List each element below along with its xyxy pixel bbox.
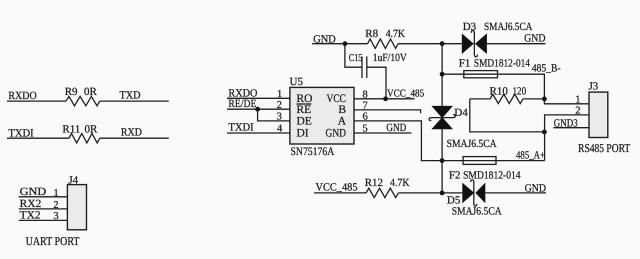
svg-text:5: 5 xyxy=(363,124,368,135)
svg-text:VCC_485: VCC_485 xyxy=(316,182,358,194)
svg-text:D5: D5 xyxy=(447,194,461,206)
resistor R10 xyxy=(470,86,545,104)
wire B vertical xyxy=(441,44,443,107)
svg-text:R10: R10 xyxy=(490,86,509,98)
svg-text:F1: F1 xyxy=(459,57,471,69)
svg-text:0R: 0R xyxy=(85,123,99,135)
fuse F1 SMD1812-014 xyxy=(459,57,531,77)
svg-text:RXD: RXD xyxy=(121,127,142,139)
wire RXDO-TXD net xyxy=(7,100,169,102)
svg-text:2: 2 xyxy=(277,100,282,111)
svg-text:TX2: TX2 xyxy=(20,209,41,221)
svg-text:D3: D3 xyxy=(463,21,477,33)
svg-text:UART PORT: UART PORT xyxy=(26,234,80,248)
svg-text:A: A xyxy=(338,116,347,128)
svg-text:0R: 0R xyxy=(84,86,98,98)
node R10 top xyxy=(542,97,547,102)
svg-text:1: 1 xyxy=(277,89,282,100)
svg-text:485_A+: 485_A+ xyxy=(516,149,545,161)
wire A vertical lower xyxy=(441,128,443,193)
wire J3 pin2 xyxy=(545,106,589,161)
wire R10 left return xyxy=(470,99,545,132)
svg-text:VCC_485: VCC_485 xyxy=(387,88,424,99)
resistor R12 xyxy=(365,177,410,197)
wire TXDI-RXD net xyxy=(7,137,169,139)
transistor D5: TVS diode D5 xyxy=(447,180,502,218)
wire D5 to GND xyxy=(485,192,546,194)
svg-text:4: 4 xyxy=(277,123,283,134)
svg-text:2: 2 xyxy=(53,200,58,211)
svg-text:TXDI: TXDI xyxy=(228,121,254,133)
wire U5 pin6 A xyxy=(354,111,442,160)
svg-text:GND: GND xyxy=(386,122,406,134)
svg-text:DE: DE xyxy=(297,116,312,128)
wire A row through F2 xyxy=(442,160,544,162)
svg-text:1: 1 xyxy=(53,188,58,199)
svg-text:SMAJ6.5CA: SMAJ6.5CA xyxy=(447,138,497,150)
svg-text:8: 8 xyxy=(363,89,368,100)
node RE/DE junction xyxy=(255,107,260,112)
node B-line top junction xyxy=(440,41,445,46)
svg-text:SMD1812-014: SMD1812-014 xyxy=(474,57,531,69)
wire U5 pin5 GND xyxy=(354,122,412,135)
svg-text:GND: GND xyxy=(326,128,347,140)
transistor D3: TVS diode D3 xyxy=(462,21,533,57)
node A-line junction xyxy=(440,158,445,163)
wire U5 pin2 RE/DE xyxy=(227,98,290,111)
svg-text:RE/DE: RE/DE xyxy=(228,98,256,110)
wire VCC_485 to R12 xyxy=(314,192,366,194)
wire R8 to D3 xyxy=(398,43,462,45)
svg-text:1: 1 xyxy=(575,94,580,105)
wire J4 pin1 GND xyxy=(19,186,68,199)
wire D3 to GND xyxy=(487,43,546,45)
svg-text:3: 3 xyxy=(53,211,58,222)
svg-text:R11: R11 xyxy=(62,123,80,135)
node R12 junction xyxy=(440,191,445,196)
node VCC_485 xyxy=(383,88,424,101)
svg-text:TXDI: TXDI xyxy=(8,128,34,140)
wire J3 pin1 xyxy=(544,94,589,105)
svg-text:GND3: GND3 xyxy=(554,117,578,129)
svg-text:R12: R12 xyxy=(365,177,383,189)
node R10 bottom xyxy=(542,130,547,135)
wire J4 pin2 RX2 xyxy=(19,198,68,211)
svg-text:R9: R9 xyxy=(65,86,78,98)
node F1 junction xyxy=(440,72,445,77)
svg-text:DI: DI xyxy=(297,128,309,140)
resistor R8 xyxy=(365,28,405,48)
svg-text:120: 120 xyxy=(513,86,527,98)
capacitor C15 xyxy=(345,44,407,99)
svg-text:TXD: TXD xyxy=(120,90,141,102)
svg-text:F2: F2 xyxy=(449,170,461,182)
svg-text:R8: R8 xyxy=(365,28,378,40)
pin RE overline xyxy=(297,104,312,116)
wire R12 to D5 xyxy=(398,192,462,194)
svg-text:6: 6 xyxy=(363,111,368,122)
svg-text:J4: J4 xyxy=(68,174,78,186)
svg-text:2: 2 xyxy=(575,106,580,117)
svg-text:RX2: RX2 xyxy=(20,198,42,210)
svg-text:485_B-: 485_B- xyxy=(532,63,561,75)
svg-text:RE: RE xyxy=(297,104,312,116)
resistor R9 xyxy=(65,86,100,106)
resistor R11 xyxy=(62,123,99,143)
wire U5 pin4 TXDI xyxy=(227,121,290,134)
connector J4 xyxy=(67,174,86,230)
svg-text:SN75176A: SN75176A xyxy=(291,146,335,158)
wire J3 pin3 GND3 xyxy=(553,117,589,129)
wire branch pin2 to pin3 xyxy=(258,109,290,121)
wire U5 pin1 RXDO xyxy=(227,87,290,100)
svg-text:1uF/10V: 1uF/10V xyxy=(373,52,407,64)
wire F1 row xyxy=(442,74,544,99)
wire J4 pin3 TX2 xyxy=(19,209,68,222)
svg-text:GND: GND xyxy=(20,186,47,198)
wire U5 pin8 VCC_485 xyxy=(354,89,415,100)
svg-text:7: 7 xyxy=(363,100,368,111)
transistor D4: TVS diode D4 xyxy=(429,106,497,150)
svg-text:B: B xyxy=(338,104,346,116)
svg-text:4.7K: 4.7K xyxy=(390,177,410,189)
wire GND to R8 xyxy=(312,43,368,45)
svg-text:SMAJ6.5CA: SMAJ6.5CA xyxy=(484,21,532,33)
svg-text:D4: D4 xyxy=(454,107,468,119)
svg-text:RXDO: RXDO xyxy=(8,90,36,102)
connector J3 xyxy=(589,81,608,138)
svg-text:C15: C15 xyxy=(349,53,363,64)
svg-text:3: 3 xyxy=(277,111,282,122)
svg-text:J3: J3 xyxy=(589,81,599,93)
svg-text:GND: GND xyxy=(524,33,545,45)
svg-text:4.7K: 4.7K xyxy=(386,28,405,40)
svg-text:SMAJ6.5CA: SMAJ6.5CA xyxy=(452,206,502,218)
fuse F2 SMD1812-014 xyxy=(449,157,521,182)
wire U5 pin7 B xyxy=(354,100,421,113)
node C15 junction xyxy=(343,41,348,46)
op-amp U1: IC U5 SN75176A xyxy=(290,76,355,158)
svg-text:GND: GND xyxy=(525,182,546,194)
svg-text:RS485 PORT: RS485 PORT xyxy=(578,141,631,155)
svg-text:U5: U5 xyxy=(290,76,304,88)
